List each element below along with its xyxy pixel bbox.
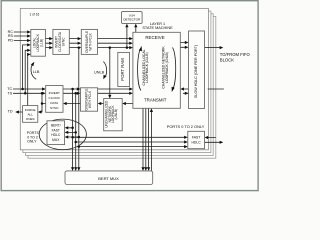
svg-text:LOOPBACK (CNLB): LOOPBACK (CNLB)	[165, 52, 169, 83]
svg-text:TS: TS	[7, 92, 12, 96]
svg-text:LLB: LLB	[33, 70, 40, 74]
svg-text:(UNLB): (UNLB)	[114, 109, 118, 120]
svg-text:TD: TD	[8, 110, 13, 114]
svg-text:HDLC: HDLC	[51, 133, 61, 137]
svg-text:PORT RAM: PORT RAM	[120, 58, 125, 81]
svg-text:STATE MACHINE: STATE MACHINE	[142, 26, 173, 30]
svg-text:RECEIVE: RECEIVE	[145, 35, 164, 40]
svg-text:FAST: FAST	[52, 128, 60, 132]
svg-text:PORTS 0 TO 2 ONLY: PORTS 0 TO 2 ONLY	[167, 124, 205, 129]
svg-text:INVERT: INVERT	[49, 91, 60, 95]
svg-text:FAST: FAST	[192, 135, 200, 139]
svg-text:WITH PCLK: WITH PCLK	[89, 32, 93, 50]
svg-text:SLOW HDLC (ONE PER PORT): SLOW HDLC (ONE PER PORT)	[194, 45, 198, 98]
svg-text:LOOPBACK (CLLB): LOOPBACK (CLLB)	[145, 52, 149, 82]
svg-text:DATA: DATA	[50, 101, 59, 105]
svg-text:HDLC: HDLC	[191, 141, 201, 145]
svg-text:SYNC: SYNC	[61, 37, 65, 47]
svg-text:WITH PCLK: WITH PCLK	[88, 90, 92, 108]
svg-text:ALL: ALL	[27, 113, 33, 117]
svg-text:BERT/: BERT/	[51, 124, 61, 128]
svg-text:TRANSMIT: TRANSMIT	[144, 98, 167, 103]
svg-text:FORCE: FORCE	[25, 108, 36, 112]
svg-text:MUX: MUX	[52, 138, 60, 142]
svg-text:DETECTOR: DETECTOR	[123, 18, 141, 22]
svg-text:1 of 16: 1 of 16	[30, 13, 40, 17]
svg-text:CLOCK/: CLOCK/	[49, 96, 61, 100]
svg-text:(LLB): (LLB)	[39, 39, 43, 47]
svg-text:ONLY: ONLY	[27, 139, 37, 143]
svg-text:RS: RS	[8, 34, 14, 38]
svg-text:SYNC: SYNC	[50, 106, 59, 110]
svg-text:BERT MUX: BERT MUX	[98, 176, 119, 181]
svg-text:BLOCK: BLOCK	[220, 57, 234, 62]
svg-text:ONES: ONES	[26, 117, 35, 121]
svg-text:PD: PD	[8, 39, 13, 43]
svg-text:UNLB: UNLB	[94, 70, 105, 74]
